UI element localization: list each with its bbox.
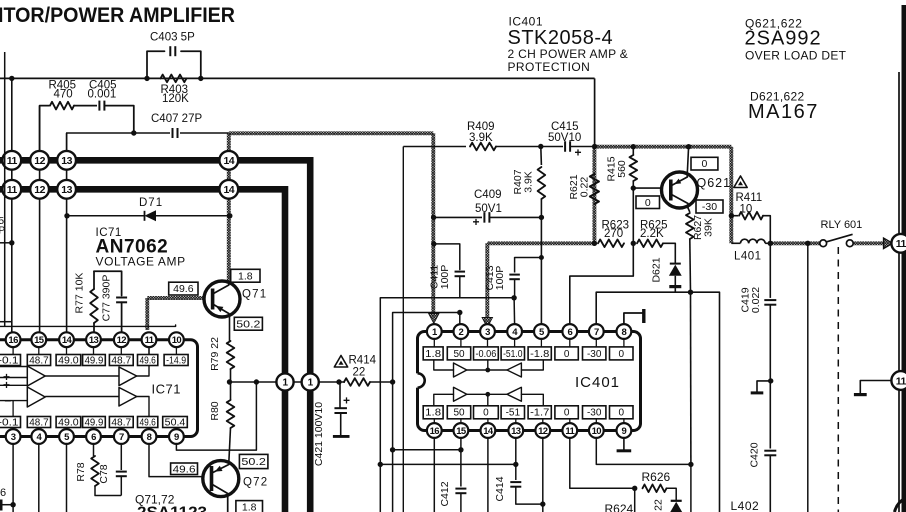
connector pin 13 row2 <box>57 180 76 199</box>
svg-text:14: 14 <box>223 155 234 167</box>
box 1.8 Q71 collector <box>231 269 260 282</box>
svg-text:12: 12 <box>117 335 127 346</box>
svg-text:C403 5P: C403 5P <box>150 32 195 44</box>
svg-text:+: + <box>343 394 350 408</box>
svg-text:R624: R624 <box>605 502 634 512</box>
svg-text:-0.1: -0.1 <box>0 417 19 428</box>
IC401 pin 1 <box>427 324 442 339</box>
svg-text:-51: -51 <box>506 408 521 419</box>
value box 49.0 <box>56 355 81 366</box>
svg-text:50.2: 50.2 <box>241 456 266 468</box>
node D621/R627 <box>688 290 693 295</box>
node link left <box>390 447 395 452</box>
wire left edge column <box>4 52 6 326</box>
box 49.6 Q71 base <box>169 282 198 295</box>
svg-text:-30: -30 <box>587 408 602 419</box>
svg-text:0.022: 0.022 <box>750 287 762 313</box>
svg-text:6: 6 <box>0 487 6 499</box>
wire pin column 13 <box>66 133 68 332</box>
node R415 top <box>631 144 636 149</box>
connector pin 12 row1 <box>30 151 49 170</box>
svg-text:48.7: 48.7 <box>111 417 131 428</box>
value box -51 <box>501 406 524 419</box>
node D71 right on hatched line <box>227 213 232 218</box>
transistor Q71 <box>204 281 240 317</box>
svg-text:-0.06: -0.06 <box>476 349 497 360</box>
IC401 pin 4 <box>507 324 522 339</box>
value box 0 <box>555 406 578 419</box>
svg-text:1.8: 1.8 <box>242 502 257 512</box>
svg-text:C414: C414 <box>494 476 506 501</box>
resistor R403 <box>161 75 187 83</box>
IC401 pin 7 <box>589 324 604 339</box>
value box 49.9 <box>83 355 106 366</box>
svg-text:100P: 100P <box>439 265 451 290</box>
svg-text:0: 0 <box>618 349 624 360</box>
wire C403 bypass loop <box>147 51 165 78</box>
terminal bar left edge <box>0 500 3 511</box>
IC401 pin 14 <box>481 423 496 438</box>
IC71 pin 15 <box>31 332 46 347</box>
svg-text:-30: -30 <box>587 349 602 360</box>
wire thick bus row 1 <box>0 160 310 512</box>
IC401 pin 16 <box>427 423 442 438</box>
IC71 pin 4 <box>31 429 46 444</box>
svg-text:P: P <box>0 226 6 237</box>
svg-text:13: 13 <box>61 155 72 167</box>
wire base link <box>633 187 670 189</box>
value box -30 <box>583 406 606 419</box>
node R411 tap <box>729 213 734 218</box>
svg-text:1.8: 1.8 <box>425 408 441 419</box>
IC401 pin 5 <box>534 324 549 339</box>
svg-text:C420: C420 <box>749 442 761 467</box>
svg-text:470: 470 <box>54 89 73 101</box>
transistor Q72 <box>203 461 239 497</box>
value box 49.6 <box>138 417 158 428</box>
terminal flag lower right <box>860 381 892 394</box>
svg-text:Q71: Q71 <box>242 289 267 301</box>
IC71 pin 16 <box>6 332 21 347</box>
value box 0 <box>474 406 499 419</box>
wire pin4 stub <box>513 298 516 325</box>
op-amp triangle A1 <box>27 366 45 386</box>
node solid drop <box>805 241 810 246</box>
svg-text:2: 2 <box>459 327 464 338</box>
svg-text:15: 15 <box>34 335 45 346</box>
svg-text:C77 390P: C77 390P <box>101 275 113 322</box>
svg-text:R414: R414 <box>349 355 377 367</box>
node R79/R80 <box>227 379 232 384</box>
svg-text:–: – <box>5 393 12 407</box>
svg-text:C78: C78 <box>98 464 110 483</box>
hatched wire IC71 pin11 to Q71 base <box>145 298 149 330</box>
diode D622 <box>671 500 682 502</box>
svg-text:STK2058-4: STK2058-4 <box>508 27 614 49</box>
wire C407 line <box>67 132 170 134</box>
svg-text:270: 270 <box>604 228 623 240</box>
wire R624 column <box>634 488 636 512</box>
node link2 left <box>378 462 383 467</box>
hatched corner down to L401 <box>729 147 733 244</box>
wire link pin2net-pin15 <box>393 449 461 451</box>
value box 50 <box>447 347 470 360</box>
svg-text:10: 10 <box>592 426 602 437</box>
svg-text:+: + <box>575 146 582 160</box>
node C411 branch <box>431 241 436 246</box>
IC401 pin 3 <box>480 324 495 339</box>
connector pin 11 bottom right <box>891 371 906 390</box>
svg-text:16: 16 <box>8 335 18 346</box>
arrow into pin 11 bus <box>884 238 893 249</box>
wire down from node <box>690 292 692 464</box>
connector pin 1 left <box>276 373 293 390</box>
svg-text:2SA1123: 2SA1123 <box>137 505 207 512</box>
vertical from R409 line down <box>402 147 404 512</box>
svg-text:120K: 120K <box>162 93 189 105</box>
svg-text:49.6: 49.6 <box>173 283 194 295</box>
page corner curve <box>895 498 906 512</box>
wire to left edge terminal <box>2 504 13 506</box>
IC71 pin 9 <box>169 429 184 444</box>
wire R409 rail <box>403 146 466 148</box>
svg-text:Q72: Q72 <box>243 477 268 489</box>
IC401 pin 11 <box>562 423 577 438</box>
ground C421 <box>333 435 350 438</box>
svg-text:2.2K: 2.2K <box>640 228 664 240</box>
wire R625 to D621 <box>663 243 675 262</box>
box 0 Q621 left <box>636 196 660 209</box>
svg-text:49.6: 49.6 <box>173 463 196 475</box>
svg-text:50: 50 <box>453 408 465 419</box>
svg-text:10: 10 <box>172 335 182 346</box>
svg-text:D71: D71 <box>139 197 163 209</box>
node R626 left <box>632 486 637 491</box>
svg-text:14: 14 <box>62 335 73 346</box>
svg-text:+: + <box>473 215 480 229</box>
value box -0.1 <box>0 417 21 428</box>
power amp IC401 body <box>418 332 641 431</box>
wire pin11 net <box>570 438 635 488</box>
wire C411 branch <box>434 244 460 270</box>
svg-text:0: 0 <box>645 197 651 209</box>
value box 0 <box>610 347 634 360</box>
svg-text:13: 13 <box>61 184 72 196</box>
svg-text:L402: L402 <box>731 499 760 512</box>
value box 50 <box>447 406 470 419</box>
buffer triangle B2 <box>119 388 137 407</box>
svg-text:3.9K: 3.9K <box>522 171 534 193</box>
box 0 Q621 top <box>691 157 718 170</box>
svg-text:6: 6 <box>91 432 96 443</box>
node R623/R625 <box>631 241 636 246</box>
value box -0.1 <box>0 355 21 366</box>
node R415 bottom <box>631 185 636 190</box>
wire pin6 net <box>570 243 634 324</box>
wire drop from relay line <box>807 243 809 512</box>
node C409 left <box>431 215 436 220</box>
wire A2 out to buffer <box>45 396 119 398</box>
value box 50.4 <box>163 417 188 428</box>
wire long line to IC71 pin10 <box>0 325 176 326</box>
wire pin13 column <box>515 438 517 480</box>
svg-text:22: 22 <box>653 499 665 511</box>
IC401 pin 8 <box>617 324 632 339</box>
node feedback <box>254 379 259 384</box>
svg-text:ITOR/POWER AMPLIFIER: ITOR/POWER AMPLIFIER <box>0 3 235 27</box>
connector pin 11 row1 <box>2 151 21 170</box>
wire IC401 pin7 net <box>596 292 719 512</box>
IC401 pin 9 <box>617 423 632 438</box>
node C409 right <box>539 215 544 220</box>
wire IC71 amp2 inputs <box>0 384 27 386</box>
box 49.6 Q72 base <box>171 463 198 475</box>
svg-text:560: 560 <box>616 160 628 178</box>
hatched wire top to Q621 area <box>594 145 731 149</box>
wire pin4 column <box>38 444 40 512</box>
IC71 pin 6 <box>86 429 101 444</box>
connector pin 14 row2 <box>219 180 238 199</box>
svg-text:3: 3 <box>485 327 490 338</box>
svg-text:0: 0 <box>618 408 624 419</box>
node C415 right <box>592 144 597 149</box>
svg-text:100P: 100P <box>494 266 506 291</box>
svg-text:L401: L401 <box>734 251 762 263</box>
IC71 pin 11 <box>142 332 157 347</box>
svg-text:VOLTAGE AMP: VOLTAGE AMP <box>96 255 186 269</box>
buffer triangle B1 <box>119 367 137 386</box>
svg-text:-14.9: -14.9 <box>166 355 186 366</box>
resistor R411 <box>731 215 738 217</box>
node L401/C419 <box>768 241 773 246</box>
svg-text:OVER LOAD DET: OVER LOAD DET <box>745 49 847 63</box>
svg-text:0: 0 <box>564 408 570 419</box>
IC71 pin 7 <box>114 429 129 444</box>
node link right <box>458 447 463 452</box>
svg-text:0.22: 0.22 <box>579 177 591 198</box>
value box 49.6 <box>138 355 158 366</box>
svg-text:7: 7 <box>594 327 599 338</box>
svg-text:IC401: IC401 <box>575 374 620 391</box>
node pin10/R627col <box>688 462 693 467</box>
svg-text:IC71: IC71 <box>152 382 181 397</box>
value box 49.0 <box>56 417 81 428</box>
connector pin 14 row1 <box>219 151 238 170</box>
svg-text:16: 16 <box>430 426 440 437</box>
svg-text:1.8: 1.8 <box>425 349 441 360</box>
op-amp triangle A2 <box>27 387 45 407</box>
svg-text:0.001: 0.001 <box>88 89 117 101</box>
value box 48.7 <box>27 355 50 366</box>
connector pin 11 row2 <box>2 180 21 199</box>
warning mark R411 <box>734 176 747 188</box>
wire pin column 12 <box>39 106 41 332</box>
svg-text:12: 12 <box>34 155 45 167</box>
value box -14.9 <box>164 355 188 366</box>
svg-text:+: + <box>3 378 10 392</box>
box -30 Q621 <box>696 200 723 213</box>
wire B2 out to pin 8 <box>137 397 149 430</box>
wire pin5 column <box>66 444 68 512</box>
svg-text:48.7: 48.7 <box>111 355 131 366</box>
svg-text:15: 15 <box>456 426 467 437</box>
connector pin 1 right <box>302 373 319 390</box>
svg-text:PROTECTION: PROTECTION <box>508 60 591 74</box>
wire IC401 top internal <box>434 361 454 371</box>
svg-text:0: 0 <box>564 349 570 360</box>
wire R627 down to node <box>689 239 692 292</box>
svg-text:11: 11 <box>565 426 575 437</box>
svg-text:C407 27P: C407 27P <box>151 113 202 125</box>
IC401 pin 6 <box>562 324 577 339</box>
IC401 pin 13 <box>508 423 523 438</box>
node main/C403 left <box>144 76 149 81</box>
svg-text:22: 22 <box>353 367 366 379</box>
value box 48.7 <box>27 417 50 428</box>
wire thick bus row 2 <box>0 189 285 512</box>
IC401 pin 15 <box>454 423 469 438</box>
wire pin3 column <box>12 444 14 512</box>
svg-text:R78: R78 <box>75 462 87 481</box>
node C419/C420 flag <box>768 378 773 383</box>
node R407 top <box>538 144 543 149</box>
svg-text:11: 11 <box>145 335 155 346</box>
svg-text:49.6: 49.6 <box>140 417 157 428</box>
IC71 pin 8 <box>142 429 157 444</box>
arrow into IC401 pin 1 <box>429 314 439 324</box>
svg-text:11: 11 <box>896 238 906 250</box>
wire pin9 feedback <box>176 382 256 450</box>
wire B1 out to pin 11 <box>137 347 149 376</box>
node main/pin11 column <box>9 76 14 81</box>
svg-text:1.8: 1.8 <box>238 270 253 282</box>
svg-text:9: 9 <box>174 432 179 443</box>
value box -1.8 <box>528 347 551 360</box>
IC71 pin 14 <box>59 332 74 347</box>
svg-text:2SA992: 2SA992 <box>745 28 822 50</box>
capacitor C403 <box>169 46 171 56</box>
svg-text:49.0: 49.0 <box>58 417 79 428</box>
IC71 pin 10 <box>169 332 184 347</box>
ground IC401 pin9 <box>623 438 625 450</box>
wire pin8 to Q72 base <box>149 444 203 477</box>
node R414 left <box>336 379 341 384</box>
value box -0.06 <box>474 347 499 360</box>
svg-text:-51.0: -51.0 <box>503 349 523 360</box>
svg-text:14: 14 <box>223 184 234 196</box>
node C405/C407 junction <box>131 130 136 135</box>
svg-text:11: 11 <box>896 375 906 387</box>
wire Q621 emitter up <box>687 147 688 174</box>
svg-text:50: 50 <box>453 349 465 360</box>
box 1.8 Q72 <box>236 501 263 512</box>
svg-text:R80: R80 <box>209 401 221 420</box>
box 50.2 Q71 emitter <box>234 317 262 330</box>
svg-text:RLY 601: RLY 601 <box>821 219 863 231</box>
svg-text:13: 13 <box>89 335 99 346</box>
wire lineA drop <box>379 298 381 512</box>
svg-text:-0.1: -0.1 <box>0 355 19 366</box>
node R623 left <box>592 241 597 246</box>
wire pin column 11 <box>11 78 13 332</box>
dashed relay actuator line <box>837 247 839 512</box>
svg-text:R411: R411 <box>736 192 763 204</box>
svg-text:8: 8 <box>147 432 152 443</box>
svg-text:R79 22: R79 22 <box>209 337 221 371</box>
wire link lineA-pin13 <box>380 463 516 465</box>
value box -30 <box>583 347 606 360</box>
node C414/pin12 <box>540 501 545 506</box>
wire pin15 column <box>460 438 462 487</box>
box 50.2 Q72 <box>239 454 268 468</box>
connector pin 13 row1 <box>57 151 76 170</box>
svg-text:C409: C409 <box>474 189 502 201</box>
page edge band <box>902 5 906 512</box>
svg-text:50.2: 50.2 <box>236 318 260 330</box>
svg-text:12: 12 <box>538 426 548 437</box>
wire output line to R414 <box>230 381 346 383</box>
svg-text:C421 100V10: C421 100V10 <box>313 402 325 466</box>
transistor Q621 <box>662 172 698 208</box>
terminal flag mid <box>757 381 771 392</box>
wire main top rail <box>0 77 595 79</box>
node Q621 emitter top <box>686 144 691 149</box>
value box -1.7 <box>528 406 551 419</box>
svg-text:14: 14 <box>483 426 494 437</box>
wire left stub2 <box>0 321 12 323</box>
svg-text:0: 0 <box>483 408 489 419</box>
IC401 pin 2 <box>454 324 469 339</box>
IC71 pin 12 <box>114 332 129 347</box>
arrow into IC401 pin 3 <box>482 318 492 328</box>
svg-text:12: 12 <box>34 184 45 196</box>
value box 1.8 <box>423 406 443 419</box>
svg-text:MA167: MA167 <box>748 101 819 123</box>
svg-text:0: 0 <box>702 158 708 170</box>
IC71 pin 13 <box>86 332 101 347</box>
IC71 pin 3 <box>6 429 21 444</box>
wire pin10 net <box>596 438 691 464</box>
op-amp IC71 body <box>0 340 198 437</box>
node left stub <box>9 240 14 245</box>
wire IC71 amp1 inputs <box>0 366 27 368</box>
warning mark R414 <box>334 356 347 368</box>
svg-text:8: 8 <box>622 327 627 338</box>
svg-text:-1.7: -1.7 <box>530 408 550 419</box>
wire R80 to Q72 emitter <box>229 428 231 461</box>
wire rail drop to C415 node <box>594 78 596 146</box>
connector pin 12 row2 <box>30 180 49 199</box>
hatched wire to IC401 pin3 <box>487 241 594 245</box>
svg-text:49.9: 49.9 <box>85 417 104 428</box>
wire C413 top link <box>515 257 542 259</box>
hatched wire to relay <box>770 241 820 245</box>
svg-text:50.4: 50.4 <box>165 417 186 428</box>
hatched wire C407 node to IC401 pin1 column <box>229 131 433 135</box>
hatched wire C415 node down (R621 path) <box>592 147 596 244</box>
node main/C403 right <box>198 76 203 81</box>
wire down to bottom <box>690 464 692 512</box>
svg-text:49.6: 49.6 <box>140 355 157 366</box>
node D71 left <box>64 213 69 218</box>
connector pin 11 top right <box>891 234 906 253</box>
node pin2 <box>457 310 462 315</box>
node R414 right <box>390 379 395 384</box>
svg-text:7: 7 <box>119 432 124 443</box>
IC71 pin 5 <box>59 429 74 444</box>
value box 48.7 <box>109 355 133 366</box>
svg-text:48.7: 48.7 <box>29 417 49 428</box>
